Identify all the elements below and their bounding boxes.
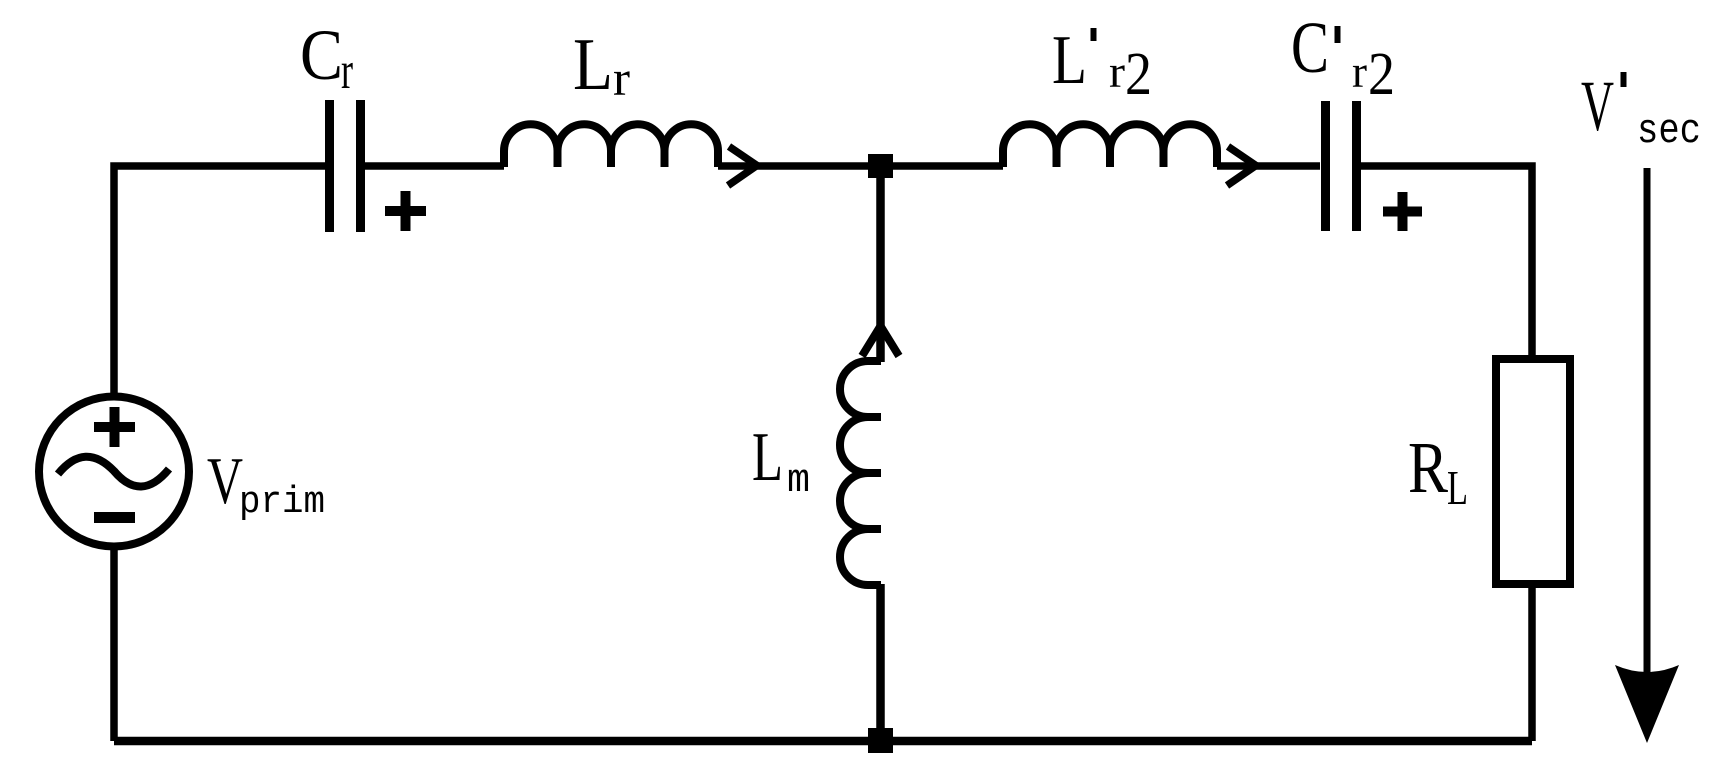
wire L_r arrow to node A — [718, 162, 868, 170]
svg-text:V: V — [1581, 66, 1614, 146]
wire top-left horizontal — [114, 166, 325, 393]
svg-text:R: R — [1408, 427, 1448, 508]
resistor R1 — [1496, 359, 1570, 584]
wire center vertical upper — [876, 166, 885, 362]
node A — [868, 154, 893, 178]
source plus sign — [94, 407, 135, 447]
wire L_r2 arrow to cap C_r2 — [1217, 162, 1320, 170]
inductor L2 vertical — [840, 361, 881, 585]
svg-text:r: r — [341, 42, 353, 100]
svg-text:r: r — [1352, 46, 1367, 97]
arrow after L3 — [1227, 147, 1256, 186]
source V1 AC circle — [39, 397, 189, 547]
arrow on center branch — [862, 326, 899, 356]
svg-text:prim: prim — [239, 481, 325, 524]
svg-text:L: L — [573, 24, 613, 106]
inductor L3 — [1003, 124, 1217, 167]
source minus sign — [94, 512, 135, 523]
wire left bottom vertical — [110, 550, 118, 741]
svg-text:L: L — [752, 419, 783, 496]
capacitor C1 plates — [330, 100, 361, 232]
arrow V_sec line — [1644, 168, 1651, 690]
inductor L1 — [504, 124, 718, 167]
arrow after L1 — [728, 147, 757, 186]
wire cap C_r to inductor L_r — [364, 162, 504, 170]
wire center vertical lower — [876, 584, 885, 741]
node B — [868, 728, 893, 753]
svg-text:V: V — [207, 444, 243, 518]
svg-text:2: 2 — [1368, 41, 1395, 108]
source sine wave — [58, 457, 169, 487]
capacitor C2 plates — [1326, 101, 1357, 231]
svg-text:L: L — [1447, 460, 1468, 515]
wire cap C_r2 to top-right corner and down — [1361, 166, 1532, 355]
svg-text:C: C — [1291, 7, 1329, 88]
svg-text:2: 2 — [1125, 41, 1152, 108]
svg-text:C: C — [300, 15, 343, 95]
svg-text:sec: sec — [1637, 107, 1701, 155]
svg-text:r: r — [613, 50, 630, 106]
wire node A to L_r2 — [880, 162, 1003, 170]
arrow V_sec head — [1615, 665, 1679, 743]
capacitor C1 plus polarity — [385, 191, 426, 231]
svg-text:r: r — [1109, 46, 1125, 97]
capacitor C2 plus polarity — [1383, 192, 1422, 231]
wire bottom rail — [114, 737, 1532, 746]
svg-text:L: L — [1052, 22, 1087, 99]
wire resistor bottom to bottom-right corner — [1528, 588, 1536, 741]
svg-text:m: m — [787, 459, 810, 504]
